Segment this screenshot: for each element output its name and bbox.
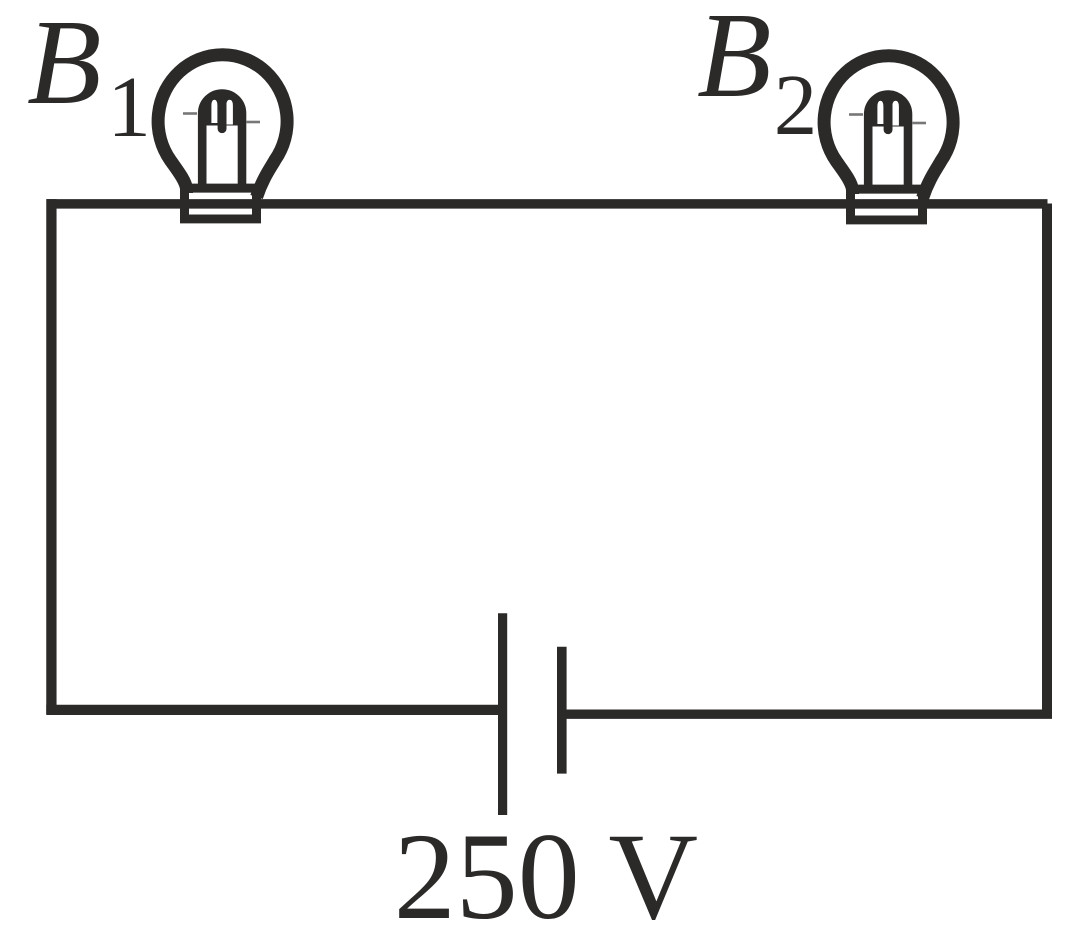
svg-text:1: 1	[107, 58, 150, 155]
svg-text:B: B	[697, 0, 772, 123]
svg-text:250 V: 250 V	[394, 808, 698, 932]
svg-text:2: 2	[774, 56, 818, 153]
svg-text:B: B	[27, 0, 102, 130]
